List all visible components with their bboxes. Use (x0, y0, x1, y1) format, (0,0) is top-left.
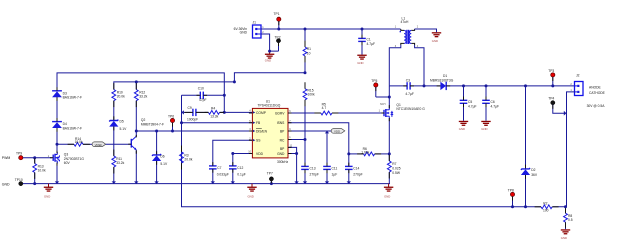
svg-text:4.7µF: 4.7µF (405, 92, 414, 96)
svg-text:BAS16W-7-F: BAS16W-7-F (63, 96, 82, 100)
svg-text:D5: D5 (120, 120, 124, 124)
zener diode D6 5.1V (152, 131, 168, 184)
resistor R8 0.5 (564, 207, 573, 230)
wire PWM to Q3 gate (23, 157, 52, 159)
resistor R7 0.025 0.5W (387, 161, 400, 184)
wire output rail left segment (389, 85, 407, 87)
svg-text:GND: GND (265, 59, 271, 63)
test point TP1 (274, 12, 281, 29)
node junction TP5 on drain (388, 96, 391, 99)
test point TP6 lead (172, 123, 174, 127)
svg-text:MMBT3904-7-F: MMBT3904-7-F (141, 122, 164, 126)
connector J2 (570, 73, 605, 108)
svg-text:TP3: TP3 (548, 69, 554, 73)
test point TP1 lead (278, 21, 280, 25)
wire SS row to C7 (213, 140, 253, 166)
svg-text:MBRS3100T3G: MBRS3100T3G (430, 78, 454, 82)
ground at J1 pin2 (265, 51, 275, 63)
svg-text:47uH: 47uH (401, 20, 410, 24)
svg-text:5.1V: 5.1V (160, 162, 168, 166)
resistor R10 leads (113, 83, 115, 89)
capacitor C7 leads (212, 162, 214, 166)
svg-text:C11: C11 (332, 166, 338, 170)
capacitor C1 leads (361, 35, 363, 39)
diode D4 BAS16W-7-F (52, 122, 82, 152)
test point TP7 lead (270, 181, 272, 183)
svg-text:NCH: NCH (380, 103, 386, 106)
svg-text:0.025: 0.025 (392, 166, 400, 170)
capacitor C6 leads (485, 97, 487, 101)
node junction GND pin on pad vertical (295, 152, 298, 155)
wire FB row (182, 122, 253, 124)
resistor R12 leads (135, 83, 137, 89)
transistor Q2 MMBT3904 (129, 118, 164, 150)
svg-text:TP5: TP5 (371, 79, 377, 83)
svg-text:GND: GND (44, 195, 50, 199)
resistor R3 20.0k (180, 152, 193, 163)
svg-text:60V: 60V (64, 161, 71, 165)
resistor R10 20.0k (112, 90, 125, 120)
node arrow C12 bottom on rail (231, 181, 235, 184)
node junction C1 top (361, 28, 364, 31)
svg-text:TP8: TP8 (508, 189, 514, 193)
capacitor C9 leads (185, 111, 193, 113)
node junction TP8 on sense rail (511, 205, 514, 208)
node arrow COMP row at FB vertical (181, 110, 184, 114)
resistor R14 leads (68, 143, 74, 145)
test point TP9 (16, 152, 23, 160)
svg-text:0.033µF: 0.033µF (217, 172, 229, 176)
node junction FB row on vertical (180, 121, 183, 124)
capacitor C13 270pF (301, 140, 319, 184)
wire GND rail (23, 183, 390, 185)
svg-text:D1: D1 (443, 74, 447, 78)
svg-text:36V: 36V (531, 173, 538, 177)
test point TP3 lead (552, 77, 554, 81)
svg-text:R1: R1 (307, 47, 311, 51)
svg-text:C12: C12 (237, 166, 243, 170)
wire net B from R10 top along y82 (114, 73, 305, 90)
svg-text:C13: C13 (310, 166, 316, 170)
wire Q3 drain up (56, 144, 58, 152)
svg-text:4.7µF: 4.7µF (468, 104, 477, 108)
zener D6 leads (156, 151, 158, 154)
ground at GND rail right end (384, 184, 393, 199)
resistor R6 leads (357, 153, 363, 155)
svg-text:300kHz: 300kHz (277, 160, 289, 164)
svg-text:DIS/EN: DIS/EN (256, 129, 268, 133)
net flag VREF (after R14) (92, 142, 106, 147)
wire IC pad and GND pin to rail (288, 147, 297, 183)
node arrow C13 bottom on rail (303, 181, 307, 184)
node arrow R11 bottom on rail (112, 181, 116, 184)
node arrow C14 bottom on rail (347, 181, 351, 184)
diode D3 leads (56, 87, 58, 91)
svg-text:13.3k: 13.3k (210, 114, 218, 118)
resistor R7 leads (388, 155, 390, 161)
node arrow Q3 source on rail (55, 181, 59, 184)
svg-text:GND: GND (240, 31, 248, 35)
capacitor C3 leads (403, 85, 407, 87)
test point TP5 lead (375, 87, 377, 91)
svg-text:J2: J2 (576, 73, 580, 77)
transistor Q3 gate lead (50, 157, 53, 159)
svg-text:COMP: COMP (256, 111, 267, 115)
wire VDD row to C12 (233, 154, 253, 166)
resistor R11 leads (113, 150, 115, 156)
node junction RC row R15 C13 (304, 138, 307, 141)
test point TP2 (275, 36, 281, 52)
zener diode D5 5.1V (109, 120, 127, 156)
resistor R2 leads (535, 206, 541, 208)
diode D1 MBRS3100T3G (430, 74, 575, 90)
node junction TP7 on rail (270, 182, 273, 185)
svg-text:D2: D2 (531, 168, 535, 172)
svg-text:GDRV: GDRV (275, 111, 285, 115)
svg-text:C7: C7 (217, 166, 221, 170)
svg-text:R4: R4 (211, 107, 215, 111)
resistor R13 leads (34, 158, 36, 163)
resistor R15 100k (303, 89, 315, 140)
svg-text:VREF: VREF (95, 143, 103, 147)
capacitor C12 0.1uF (229, 166, 246, 184)
node junction D2 top (524, 84, 527, 87)
test point TP4 lead (552, 105, 554, 109)
node junction ground-TP2 corner (268, 50, 271, 53)
zener D5 leads (113, 116, 115, 120)
svg-text:10: 10 (307, 52, 311, 56)
node junction R1 top (304, 28, 307, 31)
svg-text:GND: GND (357, 61, 363, 65)
svg-text:ANODE: ANODE (589, 86, 602, 90)
capacitor C9 1000pF (184, 106, 208, 122)
transformer L1 47uH (395, 17, 419, 49)
svg-text:1000pF: 1000pF (187, 118, 198, 122)
capacitor C6 4.7uF (482, 86, 499, 121)
svg-text:C6: C6 (491, 100, 495, 104)
node junction D2 bottom on sense rail (524, 205, 527, 208)
test point TP7 (267, 171, 274, 183)
resistor R13 10.0k (33, 158, 46, 184)
svg-text:GND: GND (248, 195, 254, 199)
node junction transformer pin4 leg on rail (423, 84, 426, 87)
wire transformer pin4 loop down right (415, 45, 424, 86)
wire J2 pin1 cathode down (567, 92, 575, 207)
capacitor C13 leads (304, 163, 306, 167)
node arrow TP4 into cathode line (564, 111, 567, 116)
resistor R5 leads (314, 112, 320, 114)
svg-text:TP4: TP4 (548, 97, 554, 101)
resistor R5 4.7 (gate) (288, 102, 383, 115)
svg-text:GND: GND (459, 127, 465, 131)
svg-text:20.0k: 20.0k (184, 157, 192, 161)
svg-text:GND: GND (277, 152, 285, 156)
node junction cathode/R2/R8 (564, 205, 567, 208)
node arrow D6 bottom on rail (154, 181, 158, 184)
node junction Q2 collector / DIS row (135, 130, 138, 133)
test point TP8 lead (512, 197, 514, 201)
svg-text:10.0k: 10.0k (75, 140, 83, 144)
svg-text:RC: RC (280, 139, 285, 143)
op-amp U1 TPS40211DGQ controller (248, 99, 292, 163)
capacitor C10 leads (197, 94, 201, 96)
wire RC row (288, 139, 305, 141)
zener diode D2 36V (521, 86, 538, 207)
node junction C6 top (485, 84, 488, 87)
capacitor C11 1uF (323, 131, 337, 184)
transistor Q1 power MOSFET (379, 103, 426, 120)
zener D2 leads (525, 165, 527, 169)
node junction R13 top (33, 156, 36, 159)
capacitor C10 47pF (198, 87, 226, 102)
svg-text:4.7µF: 4.7µF (367, 42, 376, 46)
svg-text:J1: J1 (253, 21, 257, 25)
svg-text:10.0k: 10.0k (38, 168, 46, 172)
svg-text:GND: GND (2, 182, 10, 186)
svg-text:BAS16W-7-F: BAS16W-7-F (63, 126, 82, 130)
node junction TP6 on DIS row (171, 130, 174, 133)
node arrow Q2 emitter on rail (134, 181, 138, 184)
capacitor C11 leads (326, 163, 328, 167)
test point TP3 (548, 69, 555, 86)
svg-text:0.1µF: 0.1µF (237, 172, 246, 176)
svg-text:270pF: 270pF (353, 172, 362, 176)
test point TP5 (371, 79, 389, 97)
diode D1 leads (437, 85, 441, 87)
node junction D6 top (155, 130, 158, 133)
test point TP10 (15, 178, 23, 186)
transistor Q2 base lead (128, 143, 131, 145)
wire Q1 drain up (388, 86, 390, 107)
node junction Q3 drain / R14 (56, 143, 59, 146)
svg-text:TP2: TP2 (275, 36, 281, 40)
node junction C5 top (462, 84, 465, 87)
wire Q1 source to sense node (388, 120, 390, 161)
svg-text:TP9: TP9 (16, 152, 22, 156)
svg-text:GND: GND (561, 236, 567, 240)
node arrow IC gnd on rail (294, 181, 298, 184)
node junction ISNS / R6 (347, 152, 350, 155)
wire J1 pin2 to ground (261, 34, 279, 51)
wire net A top loop (diode chain to COMP network) (57, 73, 224, 113)
svg-text:47pF: 47pF (199, 98, 207, 102)
ground at R8 (561, 229, 570, 240)
wire transformer pin3 loop down left (389, 45, 401, 86)
svg-text:33.2k: 33.2k (139, 95, 147, 99)
resistor R14 10.0k (57, 137, 92, 146)
wire C10 branch (182, 94, 199, 96)
node junction net B at y82 (233, 80, 236, 83)
node arrow C7 bottom on rail (211, 181, 215, 184)
svg-text:30V @ 0.5A: 30V @ 0.5A (587, 104, 606, 108)
svg-text:TP1: TP1 (274, 12, 280, 16)
capacitor C3 4.7uF (series) (405, 78, 414, 95)
svg-text:1µF: 1µF (332, 172, 338, 176)
svg-text:TP10: TP10 (15, 178, 23, 182)
svg-text:100k: 100k (308, 92, 316, 96)
resistor R6 1.00k (349, 147, 390, 156)
svg-text:33.2k: 33.2k (116, 161, 124, 165)
op-amp U1 pin leads (249, 112, 253, 114)
svg-text:ISNS: ISNS (277, 121, 285, 125)
node junction C10 right on net A vertical (223, 94, 226, 97)
node junction TP1-VIN (277, 28, 280, 31)
wire FB node vertical (182, 95, 566, 207)
node junction VDD corner (231, 152, 234, 155)
svg-text:4.7µF: 4.7µF (491, 104, 500, 108)
svg-text:C14: C14 (353, 166, 359, 170)
resistor R8 leads (565, 208, 567, 213)
capacitor C14 leads (348, 163, 350, 167)
node junction source R6 R7 (388, 152, 391, 155)
svg-text:TP7: TP7 (267, 171, 273, 175)
wire Q2 collector up to DIS/EN row (135, 131, 137, 137)
resistor R12 33.2k (134, 82, 147, 131)
transistor Q1 drain lead (388, 105, 390, 108)
svg-text:270pF: 270pF (310, 172, 319, 176)
node arrow C11 top on BP row (325, 131, 329, 134)
svg-text:100: 100 (543, 208, 549, 212)
node junction R13 bottom (33, 182, 36, 185)
transistor Q3 2N7002BT1G (48, 152, 85, 165)
svg-text:VDD: VDD (256, 152, 264, 156)
capacitor C12 leads (232, 162, 234, 166)
svg-text:5.1V: 5.1V (120, 127, 128, 131)
diode D3 BAS16W-7-F (52, 91, 82, 121)
svg-text:4.7: 4.7 (322, 106, 327, 110)
svg-text:NTC1E0N10AE0 G: NTC1E0N10AE0 G (396, 107, 425, 111)
svg-text:TPS40211DGQ: TPS40211DGQ (258, 103, 281, 107)
svg-text:VDD: VDD (334, 130, 340, 134)
resistor R1 leads (304, 41, 306, 47)
ground at transformer pin2 (432, 32, 441, 43)
test point TP4 (548, 97, 564, 114)
capacitor C1 4.7uF (358, 29, 375, 55)
ground at C6 (481, 121, 490, 131)
node junction TP3 on rail (551, 84, 554, 87)
node junction R1 bottom / R15 top (304, 71, 307, 74)
transistor Q1 gate lead (381, 112, 384, 114)
svg-text:20.0k: 20.0k (117, 95, 125, 99)
resistor R3 leads (181, 146, 183, 152)
svg-text:C10: C10 (198, 87, 204, 91)
resistor R4 leads (205, 111, 209, 113)
svg-text:C5: C5 (468, 100, 472, 104)
svg-text:PWM: PWM (2, 156, 11, 160)
net flag VDD (BP row) (331, 129, 345, 134)
svg-text:GND: GND (384, 195, 390, 199)
svg-text:R7: R7 (392, 162, 396, 166)
test point TP2 lead (278, 42, 280, 46)
svg-text:R2: R2 (543, 202, 547, 206)
capacitor C5 4.7uF (460, 86, 477, 121)
svg-text:C1: C1 (367, 38, 371, 42)
svg-text:0.5: 0.5 (568, 218, 573, 222)
wire IC GND pin stub (288, 153, 297, 155)
resistor R11 33.2k (112, 156, 125, 184)
test point TP8 (508, 189, 515, 207)
svg-text:D6: D6 (160, 155, 164, 159)
capacitor C7 0.033uF (209, 166, 229, 184)
wire DIS/EN row (136, 130, 252, 132)
ground at C1 (357, 55, 366, 66)
ground at GND rail middle (247, 184, 256, 199)
wire Q2 emitter down to rail (135, 150, 137, 184)
ground at C5 (459, 121, 468, 131)
test point TP6 (168, 115, 175, 131)
transistor Q3 drain lead (56, 151, 58, 154)
diode D4 leads (56, 118, 58, 122)
svg-text:C9: C9 (188, 106, 192, 110)
wire output rail middle segment (410, 85, 440, 87)
capacitor C5 leads (463, 97, 465, 101)
resistor R2 100 (series in sense rail) (541, 202, 553, 213)
ground at GND rail left (44, 184, 53, 199)
node junction R4 on net A vertical (223, 111, 226, 114)
node junction R12 top (135, 80, 138, 83)
svg-text:TP6: TP6 (168, 115, 174, 119)
resistor R4 13.3k (208, 107, 252, 119)
transistor Q2 collector lead (135, 135, 137, 138)
resistor R1 10 (303, 29, 311, 73)
wire BP row (288, 130, 331, 132)
wire flag to Q2 base (106, 143, 130, 145)
wire transformer pin2 to ground (415, 29, 437, 32)
wire Q3 source down (56, 164, 58, 184)
node arrow C11 bottom on rail (325, 181, 329, 184)
svg-text:C3: C3 (406, 78, 410, 82)
svg-text:GND: GND (481, 127, 487, 131)
capacitor C14 270pF (345, 166, 363, 183)
wire ISNS row to C14 (288, 123, 349, 167)
wire VIN rail J1 pin1 to transformer pin1 (261, 28, 401, 30)
connector J1 (234, 21, 265, 38)
svg-text:0.5W: 0.5W (392, 171, 401, 175)
svg-text:CATHODE: CATHODE (589, 91, 606, 95)
svg-text:GND: GND (432, 39, 438, 43)
resistor R15 leads (304, 82, 306, 88)
